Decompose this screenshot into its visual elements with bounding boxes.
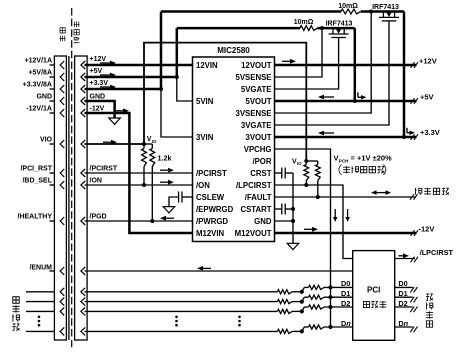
node data bus label (left, vertical) xyxy=(12,297,19,331)
svg-text:-12V: -12V xyxy=(419,224,435,233)
svg-text:D2: D2 xyxy=(341,299,350,308)
node junction GND rail xyxy=(291,219,295,223)
transistor Q2 IRF7413 (5V) xyxy=(332,28,334,34)
connector adapter edge line xyxy=(68,56,70,340)
arrow LPCIRST drop down xyxy=(347,209,349,218)
svg-text:MIC2580: MIC2580 xyxy=(217,46,250,55)
svg-text:D0: D0 xyxy=(341,279,350,288)
wire VIO resistor tap xyxy=(144,143,152,145)
wire 3VGATE xyxy=(275,21,390,125)
svg-text:PCI: PCI xyxy=(367,286,380,295)
wire /PCIRST xyxy=(85,172,193,174)
svg-text:+12V: +12V xyxy=(419,56,437,65)
wire 3VSENSE xyxy=(275,12,372,114)
wire VIO rail over IC xyxy=(144,43,306,161)
svg-text:/PCI_RST: /PCI_RST xyxy=(20,166,52,173)
node junction +3.3V xyxy=(159,87,163,91)
resistor precharge Dn xyxy=(302,327,305,331)
svg-text:-12V: -12V xyxy=(90,105,105,112)
resistor R5 (V_IO to /LPCIRST) xyxy=(305,161,307,165)
svg-text:VPCHG: VPCHG xyxy=(244,145,272,154)
svg-text:V: V xyxy=(334,154,339,163)
resistor R2 1.2k (VIO to /PGD) xyxy=(150,149,155,167)
wire /LPCIRST xyxy=(275,185,353,259)
svg-text:/PWRGD: /PWRGD xyxy=(196,217,228,226)
svg-text:/LPCIRST: /LPCIRST xyxy=(420,248,454,257)
op-amp U1 MIC2580 body xyxy=(193,57,275,242)
svg-text:D0: D0 xyxy=(398,279,407,288)
svg-text:IO: IO xyxy=(152,139,157,144)
node U2 label 控制器 xyxy=(363,301,386,308)
wire +3.3V riser xyxy=(160,12,163,91)
resistor R6 (V_IO to /FAULT) xyxy=(317,161,319,165)
svg-text:5VSENSE: 5VSENSE xyxy=(236,73,272,82)
svg-text:GND: GND xyxy=(36,94,52,101)
arrow -12V direction xyxy=(115,110,124,112)
wire /LPCIRST output xyxy=(395,258,415,260)
svg-text:/PCIRST: /PCIRST xyxy=(90,165,118,172)
svg-text:10mΩ: 10mΩ xyxy=(338,3,358,10)
node junction D1 bus xyxy=(300,300,304,304)
wire +5V bus xyxy=(85,76,177,79)
wire V_IO tap xyxy=(306,160,318,162)
node 适配器 label (vertical) xyxy=(74,21,80,43)
node junction D1 precharge rail xyxy=(328,295,332,299)
svg-text:PCH: PCH xyxy=(339,159,349,164)
wire VPCHG xyxy=(275,149,331,327)
svg-text:5VOUT: 5VOUT xyxy=(246,97,272,106)
wire GND pin xyxy=(275,220,294,222)
svg-text:12VIN: 12VIN xyxy=(196,61,218,70)
svg-text:+5V: +5V xyxy=(420,92,434,101)
node ellipsis left bus xyxy=(38,316,41,327)
wire +5V output drop xyxy=(354,28,357,101)
wire D2 bus xyxy=(85,310,278,312)
wire D1 bus xyxy=(85,301,278,303)
svg-text:+3.3V: +3.3V xyxy=(420,128,440,137)
svg-text:/FAULT: /FAULT xyxy=(245,193,272,202)
connector platform block xyxy=(54,56,66,340)
svg-text:+5V: +5V xyxy=(90,68,103,75)
wire +3.3V output xyxy=(275,136,417,139)
svg-text:+3.3V: +3.3V xyxy=(90,80,109,87)
node U2 left pin labels xyxy=(341,279,351,328)
svg-text:GND: GND xyxy=(254,217,272,226)
node junction 5VSENSE xyxy=(320,26,324,30)
arrow /PGD direction xyxy=(166,217,175,219)
svg-text:+3.3V/8A: +3.3V/8A xyxy=(23,82,52,89)
svg-text:+12V/1A: +12V/1A xyxy=(25,58,52,65)
svg-text:/ON: /ON xyxy=(196,181,210,190)
node +12V out slashes xyxy=(411,62,415,68)
node +3.3V out slashes xyxy=(411,134,415,140)
svg-text:CSLEW: CSLEW xyxy=(196,193,225,202)
wire +12V bus xyxy=(85,64,193,67)
svg-text:3VSENSE: 3VSENSE xyxy=(236,109,272,118)
svg-text:D1: D1 xyxy=(398,289,407,298)
wire +3.3V bus xyxy=(85,88,162,91)
svg-text:IO: IO xyxy=(297,161,302,166)
wire +5V riser xyxy=(176,28,179,78)
svg-text:5VIN: 5VIN xyxy=(196,97,214,106)
wire +3.3V top rail (pre) xyxy=(161,10,341,13)
svg-text:CSTART: CSTART xyxy=(240,205,271,214)
resistor precharge D1 xyxy=(302,297,305,301)
arrow +5V corner xyxy=(357,92,359,97)
svg-text:/ON: /ON xyxy=(90,177,102,184)
arrow +3.3V direction xyxy=(100,86,111,88)
svg-text:-12V/1A: -12V/1A xyxy=(26,106,52,113)
node junction Dn bus xyxy=(300,329,304,333)
arrow +12V out xyxy=(282,60,291,62)
svg-text:Dn: Dn xyxy=(398,319,408,328)
svg-text:M12VIN: M12VIN xyxy=(196,229,225,238)
arrow /ON direction xyxy=(160,181,169,183)
capacitor C2 (CRST) xyxy=(275,172,282,174)
node -12V out slashes xyxy=(411,230,415,236)
node junction CSTART rail xyxy=(291,207,295,211)
node junction R6-/FAULT xyxy=(316,195,320,199)
arrow /PCIRST direction xyxy=(160,169,169,171)
wire -12V bus xyxy=(85,113,193,233)
svg-text:IRF7413: IRF7413 xyxy=(326,20,353,27)
svg-text:VIO: VIO xyxy=(40,137,53,144)
svg-text:Dn: Dn xyxy=(341,319,351,328)
node /LPCIRST out slashes xyxy=(411,257,415,263)
wire label stubs to platform connector xyxy=(50,65,55,271)
node junction VIO xyxy=(142,142,146,146)
resistor R3 10m&#937; (3.3V sense) xyxy=(341,9,361,14)
capacitor C1 (CSLEW) xyxy=(182,196,193,198)
node 平台 label (vertical) xyxy=(60,28,66,41)
wire +3.3V top rail (mid) xyxy=(361,10,404,13)
arrow VIO direction xyxy=(103,141,112,143)
svg-text:3VIN: 3VIN xyxy=(196,133,214,142)
wire VIO xyxy=(85,143,145,145)
wire CRST ground rail xyxy=(292,173,294,243)
svg-text:/BD_SEL: /BD_SEL xyxy=(22,178,52,185)
wire Dn bus xyxy=(85,330,278,332)
wire data bus stubs (platform side) xyxy=(26,292,54,332)
wire +5V top rail (pre) xyxy=(177,27,300,30)
node junction D0 precharge rail xyxy=(328,285,332,289)
node platform power labels xyxy=(23,58,52,113)
connector adapter block xyxy=(75,56,88,340)
node fault out slashes xyxy=(410,194,414,200)
node junction D2 precharge rail xyxy=(328,305,332,309)
node junction Dn precharge rail xyxy=(328,325,332,329)
wire 5VIN feed xyxy=(177,77,193,101)
wire D0 bus xyxy=(85,291,278,293)
arrow +3.3V corner xyxy=(406,128,408,133)
wire /ENUM xyxy=(85,270,353,272)
svg-text:+12V: +12V xyxy=(90,56,107,63)
resistor R1 1.2k (VIO to /ON) xyxy=(142,149,147,167)
node junction R5-/LPCIRST xyxy=(304,183,308,187)
arrow +3.3V back xyxy=(324,132,335,134)
wire 5VSENSE xyxy=(275,28,323,77)
arrow /ENUM direction xyxy=(203,267,212,269)
node ellipsis mid bus 1 xyxy=(175,316,178,327)
ground GND (platform) xyxy=(109,118,121,124)
node junction D2 bus xyxy=(300,309,304,313)
arrow /LPCIRST out xyxy=(399,255,404,257)
wire GND xyxy=(85,101,115,118)
node U1 right pin labels xyxy=(235,61,272,238)
wire /PGD xyxy=(85,220,193,222)
svg-text:3VOUT: 3VOUT xyxy=(246,133,272,142)
svg-text:+5V/8A: +5V/8A xyxy=(28,70,52,77)
svg-text:/ENUM: /ENUM xyxy=(29,265,52,272)
svg-text:12VOUT: 12VOUT xyxy=(241,61,272,70)
node data bus label (right, vertical) xyxy=(426,293,433,327)
wire /ON xyxy=(85,184,193,186)
node junction D0 bus xyxy=(300,290,304,294)
node junction R1-/ON xyxy=(142,183,146,187)
svg-text:/POR: /POR xyxy=(252,157,271,166)
arrow fault bidirectional xyxy=(376,192,386,194)
arrow VPCHG rail down xyxy=(334,209,336,218)
node junction R2-/PGD xyxy=(150,219,154,223)
svg-text:= +1V ±20%: = +1V ±20% xyxy=(351,154,393,163)
svg-text:3VGATE: 3VGATE xyxy=(241,121,272,130)
svg-text:/LPCIRST: /LPCIRST xyxy=(236,181,272,190)
ground U1 bypass xyxy=(287,243,299,249)
node junction 3VSENSE xyxy=(369,10,373,14)
svg-text:GND: GND xyxy=(90,93,106,100)
node junction 5VOUT xyxy=(353,99,357,103)
svg-text:/PGD: /PGD xyxy=(90,213,107,220)
node junction 3VOUT xyxy=(402,135,406,139)
capacitor C3 (CSTART) xyxy=(275,208,282,210)
node +5V out slashes xyxy=(411,98,415,104)
svg-text:/EPWRGD: /EPWRGD xyxy=(196,205,234,214)
svg-text:5VGATE: 5VGATE xyxy=(241,85,272,94)
ground CSLEW cap xyxy=(163,207,175,213)
wire U2 data outputs xyxy=(395,279,418,332)
resistor R4 10m&#937; (5V sense) xyxy=(300,26,318,31)
svg-text:/HEALTHY: /HEALTHY xyxy=(18,214,53,221)
svg-text:/PCIRST: /PCIRST xyxy=(196,169,227,178)
node 过流故障 label xyxy=(415,188,449,195)
node U1 left pin labels xyxy=(196,61,234,238)
node junction V_IO (right) xyxy=(304,159,308,163)
arrow -12V out xyxy=(304,228,313,230)
arrow +5V direction xyxy=(100,74,111,76)
wire +5V top rail (mid) xyxy=(318,27,355,30)
svg-text:CRST: CRST xyxy=(250,169,271,178)
op-amp U2 PCI controller body xyxy=(353,251,395,341)
wire +3.3V output drop xyxy=(403,12,406,138)
node 预充电电源 label xyxy=(339,165,386,175)
svg-text:1.2k: 1.2k xyxy=(158,154,172,163)
wire /FAULT output xyxy=(275,196,417,198)
resistor precharge D0 xyxy=(302,287,305,291)
wire -12V output xyxy=(275,232,417,235)
wire +5V output xyxy=(275,100,417,103)
transistor Q1 IRF7413 (3.3V) xyxy=(382,12,384,18)
svg-text:IRF7413: IRF7413 xyxy=(372,4,399,11)
svg-text:10mΩ: 10mΩ xyxy=(294,19,314,26)
node ellipsis mid bus 2 xyxy=(238,316,241,327)
svg-text:M12VOUT: M12VOUT xyxy=(235,229,272,238)
wire 5VGATE xyxy=(275,38,339,90)
arrow +12V direction xyxy=(100,62,111,64)
node backplane divider (dashed) xyxy=(71,8,73,348)
svg-text:D1: D1 xyxy=(341,289,350,298)
connector pin contacts (chevrons) xyxy=(60,61,85,335)
wire 3VIN feed xyxy=(161,89,193,137)
node junction +5V xyxy=(175,75,179,79)
resistor precharge D2 xyxy=(302,307,305,311)
wire +12V output xyxy=(275,64,417,67)
arrow +5V back xyxy=(324,96,335,98)
svg-text:D2: D2 xyxy=(398,299,407,308)
